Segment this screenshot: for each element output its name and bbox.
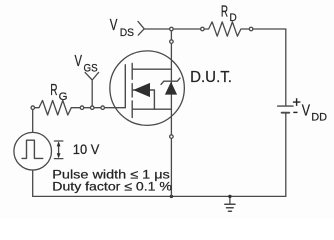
svg-text:R: R: [50, 82, 57, 99]
probe VDS: [138, 21, 144, 35]
transistor drain bar: [132, 68, 171, 70]
junction dot source/bottom rail: [170, 195, 173, 198]
probe VGS: [85, 72, 99, 105]
battery VDD: [278, 105, 293, 107]
transistor channel segment middle: [131, 84, 133, 97]
transistor body arrow lead: [132, 90, 154, 109]
svg-text:R: R: [221, 3, 228, 20]
body diode cathode bar (zener): [161, 78, 180, 84]
svg-text:GS: GS: [84, 62, 98, 74]
junction dot ground/bottom rail: [228, 195, 231, 198]
svg-text:DS: DS: [120, 27, 134, 39]
node gate terminal 3: [101, 106, 105, 110]
label VDS: [110, 17, 134, 39]
label RD: [221, 3, 237, 24]
node drain top terminal: [170, 27, 174, 31]
wire drain/source vertical: [170, 29, 172, 196]
resistor RG: [35, 100, 80, 115]
transistor channel segment top: [131, 64, 133, 80]
label VGS: [75, 53, 98, 74]
svg-text:DD: DD: [311, 112, 327, 124]
wire gate segments: [84, 107, 125, 109]
node drain lower terminal: [170, 40, 174, 44]
node RD right terminal: [249, 27, 253, 31]
battery plus sign: [293, 98, 301, 106]
svg-text:D.U.T.: D.U.T.: [190, 69, 232, 86]
wire bottom rail: [33, 195, 286, 197]
wire pulse source bottom lead: [32, 170, 34, 196]
svg-text:10 V: 10 V: [73, 141, 100, 157]
svg-text:G: G: [59, 91, 68, 103]
transistor channel segment bottom: [131, 101, 133, 118]
svg-text:V: V: [110, 17, 118, 34]
node gate terminal 2 (VGS tap): [90, 106, 94, 110]
battery minus sign: [293, 111, 297, 113]
svg-text:Duty factor ≤ 0.1 %: Duty factor ≤ 0.1 %: [52, 180, 172, 194]
node source terminal: [170, 135, 174, 139]
ground: [229, 196, 231, 204]
wire right rail down to battery: [285, 29, 287, 105]
wire battery to bottom rail: [285, 114, 287, 197]
svg-text:V: V: [75, 53, 83, 70]
pulse generator source: [14, 132, 52, 170]
label VDD: [302, 102, 327, 123]
node RG left terminal: [31, 106, 35, 110]
annotation 10V dimension arrow: [54, 141, 63, 159]
wire pulse source top lead: [32, 110, 34, 133]
wire top rail (VDS probe to right corner): [144, 28, 200, 30]
node RD left terminal: [201, 27, 205, 31]
node gate terminal 1: [80, 106, 84, 110]
transistor gate bar: [124, 65, 126, 108]
resistor RD: [204, 22, 249, 36]
label RG: [50, 82, 67, 103]
svg-text:V: V: [302, 102, 311, 119]
transistor source bar: [132, 108, 171, 110]
transistor D.U.T. envelope: [110, 51, 185, 126]
body diode triangle: [165, 82, 177, 95]
transistor body arrow head: [133, 83, 150, 97]
svg-text:D: D: [229, 12, 236, 24]
